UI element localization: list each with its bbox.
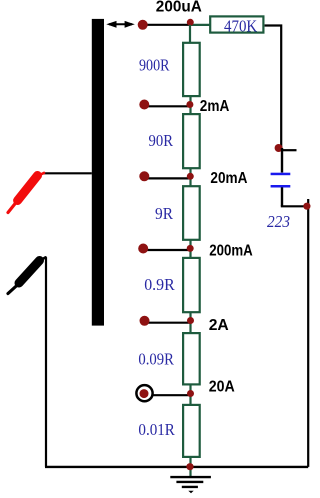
wiper double arrow: [106, 21, 135, 28]
wire leg R2-R3: [189, 168, 191, 186]
junction top node: [187, 19, 194, 26]
resistor R5 0.09R: [183, 333, 200, 384]
black probe (negative test lead): [8, 257, 46, 467]
wire 20A tap: [152, 394, 191, 396]
junction 20A: [187, 390, 194, 397]
wire chain top leg: [189, 25, 191, 43]
node 200mA tap dot: [138, 244, 148, 254]
junction 2A: [187, 317, 194, 324]
resistor R6 0.01R: [183, 405, 200, 457]
svg-text:200uA: 200uA: [156, 0, 202, 16]
svg-text:2A: 2A: [209, 317, 229, 334]
wire 2A tap: [145, 322, 191, 324]
ground symbol: [170, 477, 211, 493]
svg-text:470K: 470K: [224, 16, 257, 35]
node 2mA tap dot: [139, 100, 149, 110]
node 2A tap dot: [140, 316, 150, 326]
wire bottom bus: [45, 466, 308, 468]
wire leg R4-R5: [189, 312, 191, 333]
resistor R4 0.9R: [183, 258, 200, 312]
wire leg R1-R2: [189, 96, 191, 114]
resistor R3 9R: [183, 186, 200, 240]
switch bar (slider track): [92, 19, 104, 326]
node 200uA tap dot: [138, 20, 148, 30]
wire 20mA tap: [144, 177, 190, 179]
wire leg R5-R6: [189, 384, 191, 405]
junction 20mA: [187, 173, 194, 180]
svg-text:900R: 900R: [139, 55, 170, 74]
wire right bus down: [307, 199, 309, 467]
wire top tap (green part to 470K): [190, 24, 210, 26]
red probe (positive test lead): [8, 173, 92, 213]
svg-text:0.9R: 0.9R: [144, 275, 175, 294]
junction capacitor top: [275, 144, 283, 152]
junction capacitor bottom: [303, 203, 310, 210]
svg-text:20A: 20A: [209, 379, 235, 396]
wire top tap (black part): [141, 24, 190, 26]
wire leg R3-R4: [189, 240, 191, 258]
svg-text:0.01R: 0.01R: [138, 420, 175, 439]
wire stub right of capacitor-top junction: [281, 149, 297, 151]
junction ground node: [186, 463, 193, 470]
svg-text:0.09R: 0.09R: [138, 349, 174, 368]
junction 200mA: [187, 245, 194, 252]
svg-text:2mA: 2mA: [200, 98, 230, 115]
svg-text:20mA: 20mA: [210, 170, 247, 187]
svg-text:200mA: 200mA: [209, 243, 253, 260]
node 20mA tap dot: [139, 171, 149, 181]
resistor R2 90R: [183, 114, 200, 168]
junction 2mA: [186, 101, 193, 108]
wire leg R6 to ground node: [189, 457, 191, 477]
svg-text:223: 223: [267, 212, 290, 231]
capacitor C 223: [271, 148, 307, 206]
resistor R7 470K: [210, 16, 263, 35]
wire 470K to capacitor: [265, 26, 282, 149]
node 20A tap dot with selector ring: [136, 385, 152, 401]
wire 200mA tap: [143, 249, 190, 251]
wire 2mA tap: [144, 105, 190, 107]
svg-text:90R: 90R: [149, 131, 174, 150]
svg-text:9R: 9R: [155, 204, 173, 223]
resistor R1 900R: [183, 43, 200, 96]
